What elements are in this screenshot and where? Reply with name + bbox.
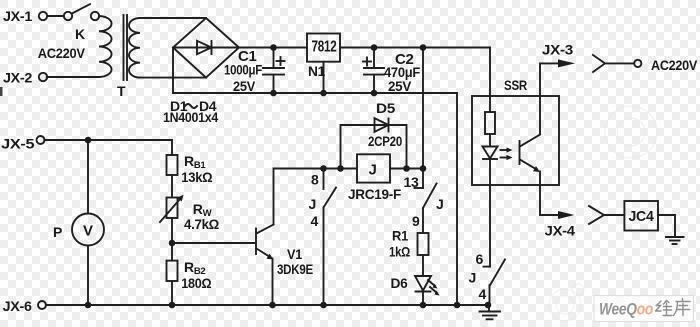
relay contact J 8-4 <box>324 169 337 306</box>
svg-text:4: 4 <box>311 213 319 229</box>
svg-text:4: 4 <box>479 286 487 302</box>
ground symbol JC4 <box>666 237 684 244</box>
svg-text:1000μF: 1000μF <box>224 62 263 78</box>
label J <box>469 269 477 285</box>
node dot C2 bottom <box>371 90 378 97</box>
label pin 8 <box>311 172 319 188</box>
label J <box>309 196 317 212</box>
node JX-5 label <box>1 136 35 152</box>
label V1 <box>287 246 302 262</box>
label pin 9 <box>412 213 420 229</box>
label pin 4 <box>479 286 487 302</box>
label T <box>117 83 126 99</box>
wire +12V to SSR resistor <box>489 48 491 113</box>
scan speck left edge <box>0 87 3 96</box>
label 1000uF <box>224 62 263 78</box>
bridge rectifier D1-D4 diamond <box>173 18 239 78</box>
wire LED cathode down to contact <box>489 159 491 267</box>
arrow JX-4 <box>558 211 575 219</box>
svg-text:R1: R1 <box>392 228 408 244</box>
svg-text:AC220V: AC220V <box>651 57 698 73</box>
voltmeter P <box>72 140 104 305</box>
node dot <box>420 302 427 309</box>
node dot <box>85 302 92 309</box>
SSR box <box>472 96 559 185</box>
svg-text:4.7kΩ: 4.7kΩ <box>184 216 219 232</box>
watermark logo faint <box>549 284 584 321</box>
svg-text:SSR: SSR <box>504 77 527 93</box>
wire top rail right <box>340 47 490 49</box>
label D1~D4 <box>170 98 217 114</box>
terminal JX-5 <box>37 136 45 144</box>
terminal JX-6 <box>38 301 46 309</box>
optocoupler arrows <box>501 147 513 160</box>
phototransistor in SSR <box>520 135 541 173</box>
node dot pin13 <box>420 165 427 172</box>
node JX-1 label <box>3 8 33 24</box>
svg-text:8: 8 <box>311 172 319 188</box>
label pin 4 <box>311 213 319 229</box>
node dot ground <box>485 302 492 309</box>
label 180 ohm <box>181 275 211 291</box>
label pin 13 <box>404 174 420 190</box>
wire secondary bottom <box>140 77 206 79</box>
label 13k ohm <box>181 169 212 185</box>
svg-text:AC220V: AC220V <box>38 45 86 61</box>
switch K <box>64 4 99 20</box>
label D6 <box>391 275 409 291</box>
svg-text:J: J <box>309 196 317 212</box>
capacitor C2 <box>363 48 384 94</box>
svg-text:JX-5: JX-5 <box>1 136 35 152</box>
label 2CP20 <box>368 133 402 149</box>
wire relay coil row <box>274 168 424 170</box>
label AC220V <box>651 57 698 73</box>
svg-text:6: 6 <box>476 251 484 267</box>
label D5 <box>376 100 396 116</box>
label 470uF <box>384 64 421 80</box>
LED D6 <box>415 276 440 305</box>
wire vertical from +12V to relay <box>422 48 424 169</box>
watermark box WeeQoo <box>594 296 694 322</box>
label 3DK9E <box>277 261 313 277</box>
wire ground rail <box>173 93 457 305</box>
wire <box>171 218 173 261</box>
regulator U 7812 box <box>307 34 340 62</box>
label AC220V <box>38 45 86 61</box>
node dot base <box>169 240 176 247</box>
chevron arrow <box>589 206 624 224</box>
faint site watermark rings <box>605 106 657 158</box>
svg-text:9: 9 <box>412 213 420 229</box>
node dot D5 left <box>337 165 344 172</box>
svg-text:JC4: JC4 <box>629 208 655 225</box>
node dot 7812 gnd <box>320 90 327 97</box>
resistor in SSR <box>485 112 495 134</box>
node JX-6 label <box>3 298 33 314</box>
svg-text:J: J <box>369 162 377 179</box>
label pin 6 <box>476 251 484 267</box>
relay coil J box <box>357 154 390 182</box>
svg-text:J: J <box>469 269 477 285</box>
label C1 <box>238 48 257 65</box>
terminal JX-1 <box>39 12 47 20</box>
node dot x423 top <box>420 44 427 51</box>
svg-text:J: J <box>436 196 444 212</box>
capacitor C1 <box>263 48 285 94</box>
label 25V <box>233 78 256 94</box>
label 4.7k ohm <box>184 216 219 232</box>
wire <box>171 281 173 305</box>
wire collector to JX-3 <box>540 63 561 134</box>
relay contact J 13-9 <box>415 169 437 234</box>
svg-text:K: K <box>75 26 85 42</box>
svg-text:D6: D6 <box>391 275 409 291</box>
label RB2 <box>184 259 205 277</box>
label N1 <box>308 63 326 79</box>
transistor V1 <box>256 169 274 306</box>
svg-text:JX-4: JX-4 <box>545 223 576 239</box>
diode D5 loop <box>341 118 407 168</box>
svg-text:7812: 7812 <box>312 39 337 56</box>
svg-text:P: P <box>53 224 62 240</box>
ground symbol <box>480 305 501 319</box>
label 25V <box>388 78 412 94</box>
node dot <box>169 302 176 309</box>
transformer T primary winding <box>99 16 112 77</box>
label 1k ohm <box>389 244 410 260</box>
relay contact J 6-4 <box>484 259 506 305</box>
wire JC4 to ground <box>658 215 675 237</box>
label R1 <box>392 228 408 244</box>
bridge internal diode <box>175 41 237 54</box>
wire JX-5 row <box>44 140 172 155</box>
wire <box>489 134 491 147</box>
LED in SSR <box>483 147 498 160</box>
box JC4 <box>624 201 658 231</box>
node dot voltmeter top <box>85 137 92 144</box>
label JX-4 <box>545 223 576 239</box>
svg-text:25V: 25V <box>388 78 412 94</box>
resistor R1 <box>418 233 429 276</box>
label RW <box>193 201 212 219</box>
resistor RB1 <box>167 155 178 175</box>
wire <box>171 175 173 198</box>
node dot C2 top <box>371 44 378 51</box>
node dot pin8 <box>320 165 327 172</box>
svg-text:V1: V1 <box>287 246 302 262</box>
wire 7812 ground pin <box>323 62 325 93</box>
svg-text:WeeQoo: WeeQoo <box>599 301 653 319</box>
transformer core <box>124 15 128 80</box>
resistor RB2 <box>167 261 178 281</box>
label K <box>75 26 85 42</box>
arrow JX-3 <box>558 59 575 67</box>
svg-text:JX-6: JX-6 <box>3 298 33 314</box>
svg-text:D5: D5 <box>376 100 396 116</box>
wire top rail left <box>239 47 307 49</box>
node dot C1 bottom <box>270 90 277 97</box>
wire bottom rail <box>46 304 488 306</box>
label C2 <box>395 51 414 68</box>
node dot <box>269 302 276 309</box>
label P <box>53 224 62 240</box>
svg-text:25V: 25V <box>233 78 256 94</box>
wire emitter to JX-4 <box>540 172 561 216</box>
wire <box>47 76 99 78</box>
wire bridge negative to ground rail <box>172 48 174 94</box>
label J <box>436 196 444 212</box>
wire <box>47 15 64 17</box>
svg-text:13kΩ: 13kΩ <box>181 169 212 185</box>
svg-text:JRC19-F: JRC19-F <box>348 186 402 202</box>
svg-text:V: V <box>83 223 93 240</box>
wire base <box>172 242 255 244</box>
chevron arrow <box>593 55 634 72</box>
label JRC19-F <box>348 186 402 202</box>
svg-text:2CP20: 2CP20 <box>368 133 402 149</box>
svg-text:JX-1: JX-1 <box>3 8 33 24</box>
label JX-3 <box>542 41 574 57</box>
svg-text:3DK9E: 3DK9E <box>277 261 313 277</box>
label 1N4001x4 <box>163 110 219 125</box>
transformer T secondary winding <box>129 18 140 78</box>
svg-text:1kΩ: 1kΩ <box>389 244 410 260</box>
svg-text:180Ω: 180Ω <box>181 275 211 291</box>
node dot <box>320 302 327 309</box>
node dot <box>454 302 461 309</box>
svg-text:1N4001x4: 1N4001x4 <box>163 110 219 125</box>
svg-text:T: T <box>117 83 126 99</box>
node dot <box>270 44 277 51</box>
node dot D5 right <box>403 165 410 172</box>
terminal AC220V out <box>634 60 641 67</box>
terminal JX-2 <box>39 73 47 81</box>
potentiometer RW <box>160 195 184 222</box>
node JX-2 label <box>3 69 33 85</box>
svg-text:JX-3: JX-3 <box>542 41 574 57</box>
svg-text:JX-2: JX-2 <box>3 69 33 85</box>
label SSR <box>504 77 527 93</box>
wire secondary top <box>140 17 206 19</box>
label RB1 <box>184 153 206 171</box>
